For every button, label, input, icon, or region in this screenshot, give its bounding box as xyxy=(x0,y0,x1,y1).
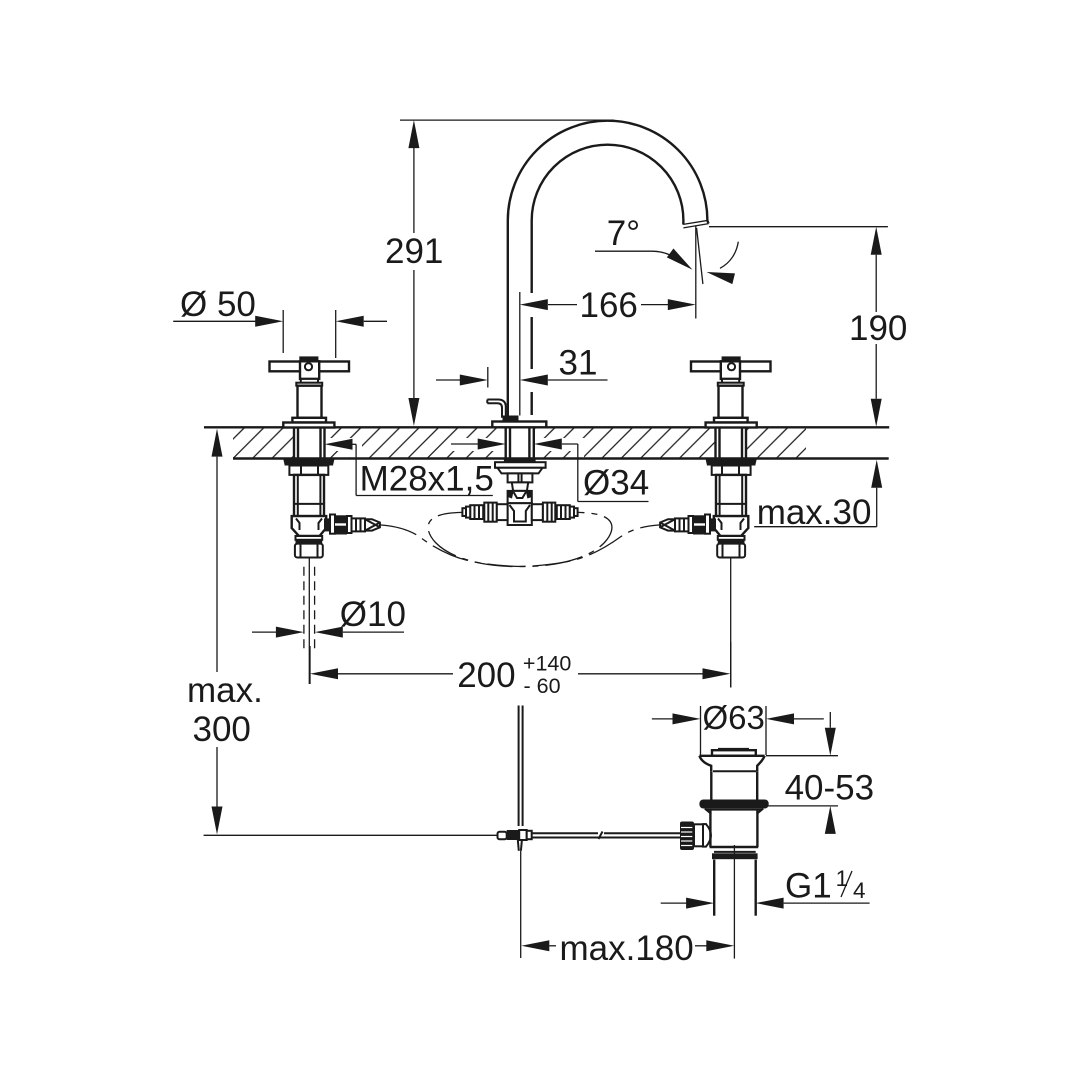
center valve top with black corners xyxy=(508,491,532,503)
center tier3 xyxy=(508,473,533,482)
drain centerline xyxy=(733,845,735,959)
flange xyxy=(283,423,334,428)
spout base flange xyxy=(492,422,546,428)
outlet black block xyxy=(335,515,347,534)
max180 left extension xyxy=(520,851,522,958)
dim Ø10 xyxy=(252,631,277,633)
drain flange xyxy=(699,756,764,772)
right valve (mirror) xyxy=(660,356,770,557)
drain lower body xyxy=(709,810,711,847)
outlet nipple xyxy=(352,518,366,531)
right valve centerline xyxy=(730,558,732,688)
dim 200 +140 -60 xyxy=(309,646,311,684)
svg-text:300: 300 xyxy=(193,710,251,749)
pop-up pull rod vertical xyxy=(518,706,520,827)
center shank through counter xyxy=(506,428,534,460)
spout gooseneck outer xyxy=(508,121,709,418)
tee left ring xyxy=(484,503,496,522)
tee right sleeve xyxy=(532,504,543,520)
handle bar xyxy=(270,362,350,372)
svg-text:+140: +140 xyxy=(523,652,571,676)
svg-text:Ø10: Ø10 xyxy=(340,595,406,634)
center tee body xyxy=(508,503,532,525)
knob connector xyxy=(694,824,706,846)
label G1 1/4 xyxy=(661,902,687,904)
drain o-ring xyxy=(699,800,768,809)
svg-text:166: 166 xyxy=(580,286,638,325)
center tier2 xyxy=(498,468,543,474)
rim xyxy=(296,383,322,386)
svg-text:M28x1,5: M28x1,5 xyxy=(360,460,494,499)
drain locknut black xyxy=(712,853,758,859)
countertop bottom line xyxy=(233,457,889,459)
countertop top line xyxy=(204,426,889,428)
spout gooseneck inner xyxy=(532,145,684,293)
compression nut xyxy=(295,544,323,558)
whiteouts for arrows in hatch xyxy=(325,438,360,451)
collar xyxy=(292,418,326,423)
spout inner edge lower segments xyxy=(531,317,533,369)
neck xyxy=(301,379,318,383)
horizontal rod xyxy=(532,832,598,834)
rod clamp xyxy=(498,832,507,840)
hex nut xyxy=(289,466,328,475)
dim 190 xyxy=(709,226,888,228)
drain upper body xyxy=(710,771,712,800)
svg-text:G1: G1 xyxy=(785,867,832,906)
svg-text:Ø 50: Ø 50 xyxy=(180,285,256,324)
valve body tube xyxy=(294,475,324,516)
outlet cone xyxy=(365,519,380,530)
black band xyxy=(296,540,323,544)
elbow block xyxy=(292,516,327,536)
dim max.180 xyxy=(521,940,549,951)
spout outlet end cap xyxy=(683,220,708,224)
label Ø34 xyxy=(451,443,479,445)
handle top black arm xyxy=(299,356,318,361)
svg-text:max.180: max.180 xyxy=(560,929,694,968)
dim 40-53 xyxy=(766,755,838,757)
tee right hose fitting xyxy=(557,505,570,519)
gasket below counter xyxy=(283,459,334,465)
svg-text:200: 200 xyxy=(457,656,515,695)
svg-text:Ø34: Ø34 xyxy=(583,464,649,503)
left valve handle and body xyxy=(270,356,380,557)
outlet ring xyxy=(330,515,335,534)
spout base gasket xyxy=(503,416,519,422)
tee left sleeve xyxy=(497,504,508,520)
drain knurled knob xyxy=(680,822,694,851)
flexible hose right-to-left xyxy=(428,512,660,566)
svg-text:4: 4 xyxy=(853,878,866,903)
lower collar xyxy=(296,536,323,540)
handle hub xyxy=(300,361,319,379)
drain pop-up cap xyxy=(718,748,749,750)
166 extension line at outlet xyxy=(695,226,697,319)
center mounting nut xyxy=(495,462,546,468)
label M28x1,5 xyxy=(325,439,353,450)
dim 31 xyxy=(436,379,460,381)
flexible hose left-to-right xyxy=(380,512,612,566)
svg-text:40-53: 40-53 xyxy=(785,769,875,808)
left supply pipe dashed xyxy=(303,567,305,650)
left supply centerline xyxy=(308,558,310,685)
drain flare xyxy=(705,809,763,814)
svg-text:7°: 7° xyxy=(607,214,640,253)
shank through counter xyxy=(293,428,295,460)
water stream 7deg line xyxy=(697,228,703,284)
svg-text:190: 190 xyxy=(849,309,907,348)
drain tailpipe xyxy=(713,860,715,916)
svg-text:max.: max. xyxy=(187,671,263,710)
dim Ø63 xyxy=(652,718,673,720)
outlet ring2 xyxy=(347,516,352,533)
svg-text:291: 291 xyxy=(385,232,443,271)
svg-text:31: 31 xyxy=(559,344,598,383)
label max.30 xyxy=(871,460,882,488)
spout rear bracket xyxy=(487,400,506,418)
center tier4 xyxy=(512,482,528,491)
svg-text:1: 1 xyxy=(836,866,849,891)
svg-text:- 60: - 60 xyxy=(524,674,561,698)
dim 166 xyxy=(548,304,577,306)
dim max.300 xyxy=(216,457,218,807)
clamp stub xyxy=(518,840,522,851)
countertop hatching xyxy=(233,427,806,458)
side outlet tab xyxy=(324,518,330,531)
center gasket under counter xyxy=(504,459,536,463)
dim 291 xyxy=(400,119,614,121)
spout centerline extension xyxy=(519,292,521,416)
ball housing bulge xyxy=(703,824,711,847)
tee left hose fitting xyxy=(470,505,483,519)
max300 bottom reference line xyxy=(204,834,498,836)
cartridge body xyxy=(298,386,322,418)
svg-text:Ø63: Ø63 xyxy=(703,699,765,736)
svg-text:max.30: max.30 xyxy=(757,493,872,532)
tee right ring xyxy=(543,503,555,522)
